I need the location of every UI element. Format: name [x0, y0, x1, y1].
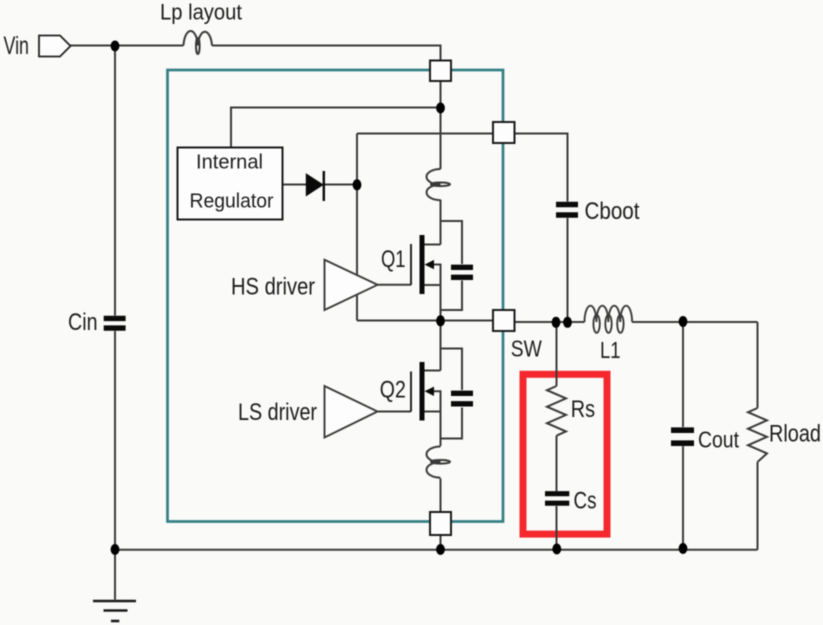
junction Cs bottom	[552, 544, 561, 555]
wire Q2 inductor to PGND pin	[440, 479, 442, 513]
wire VCC pin horizontal	[357, 133, 493, 135]
wire ground stem	[114, 550, 116, 600]
wire Q2 drain stub	[425, 370, 441, 372]
wire Q1 drain vertical	[440, 200, 442, 245]
wire Q2 body arrow stub	[433, 391, 441, 411]
wire node to Internal Regulator	[231, 108, 441, 148]
LS driver triangle	[325, 386, 378, 438]
wire out rail to Rload	[757, 322, 759, 408]
svg-text:Rload: Rload	[769, 421, 821, 448]
HS driver triangle	[325, 260, 378, 310]
capacitor Cs	[545, 494, 569, 504]
wire VCC rail down	[356, 134, 358, 321]
IC boundary box (teal)	[168, 70, 504, 522]
wire Q2 cap bottom tap	[441, 408, 463, 439]
svg-text:Rs: Rs	[571, 396, 595, 423]
wire regulator to diode	[283, 184, 306, 186]
wire Q1 cap top tap	[441, 221, 463, 264]
wire VCC pin to Cboot	[515, 134, 568, 202]
parasitic inductor above Q1	[426, 169, 450, 200]
junction ground left	[111, 544, 120, 555]
wire Cout to ground rail	[682, 446, 684, 550]
wire bottom ground rail	[115, 549, 758, 551]
wire LS driver to Q2 gate	[377, 411, 411, 413]
Internal Regulator block	[178, 148, 283, 220]
wire Q2 source stub	[425, 412, 441, 447]
wire L1 to output rail	[632, 321, 758, 323]
wire Q2 cap top tap	[441, 349, 463, 391]
transistor Q1	[411, 235, 434, 294]
wire Cin to ground rail	[114, 331, 116, 550]
wire HS driver to Q1 gate	[377, 284, 411, 286]
junction Cout bottom	[679, 543, 688, 554]
wire PGND pin to ground rail	[440, 535, 442, 550]
wire Q1 source stub	[425, 284, 441, 286]
wire Rs to Cs	[556, 436, 558, 491]
svg-text:Q1: Q1	[381, 246, 406, 273]
capacitor Q2 body	[451, 393, 473, 404]
junction PGND bottom	[436, 544, 445, 555]
svg-text:HS driver: HS driver	[231, 274, 315, 301]
svg-text:LS driver: LS driver	[238, 399, 317, 426]
svg-text:Vin: Vin	[4, 32, 30, 60]
svg-text:Internal: Internal	[196, 151, 263, 174]
svg-text:Cs: Cs	[574, 488, 597, 515]
svg-text:SW: SW	[511, 336, 543, 362]
junction diode to rail	[353, 179, 362, 190]
junction internal SW node	[436, 315, 445, 326]
diode	[306, 174, 323, 196]
svg-text:Cin: Cin	[68, 309, 98, 336]
transistor Q2	[411, 362, 434, 421]
svg-text:L1: L1	[600, 337, 621, 363]
svg-text:Q2: Q2	[380, 377, 406, 404]
wire SW to Rs	[556, 322, 558, 386]
capacitor Cboot	[556, 205, 578, 216]
pin pad PGND	[430, 512, 451, 535]
wire out node to Cout	[682, 322, 684, 427]
svg-text:Cboot: Cboot	[585, 198, 640, 225]
wire Vin node down to Cin	[114, 46, 116, 316]
wire Lp to VIN pin	[212, 46, 441, 61]
capacitor Cout	[671, 430, 694, 443]
inductor Lp layout	[184, 31, 213, 54]
wire internal SW rail	[357, 320, 493, 322]
red highlight box around Rs/Cs	[523, 374, 607, 534]
ground	[93, 601, 136, 621]
resistor Rload	[748, 408, 767, 462]
svg-text:Regulator: Regulator	[190, 190, 274, 213]
wire Q2 drain vertical	[440, 321, 442, 371]
inductor L1	[585, 306, 633, 333]
junction Vin node	[111, 41, 120, 52]
wire SW pin to L1	[515, 321, 585, 323]
capacitor Q1 body	[451, 267, 473, 277]
wire Rload to ground rail	[757, 462, 759, 550]
wire Q1 drain stub	[425, 244, 441, 246]
wire Vin to Lp	[71, 45, 184, 47]
junction below VIN pin	[436, 103, 445, 114]
capacitor Cin	[104, 318, 126, 328]
wire VIN pin to node below	[440, 81, 442, 169]
parasitic inductor below Q2	[426, 447, 450, 478]
resistor Rs	[547, 386, 566, 436]
svg-text:Lp layout: Lp layout	[160, 0, 242, 24]
wire diode to rail	[325, 184, 358, 186]
pin pad VCC	[493, 122, 515, 143]
pin pad VIN	[430, 61, 451, 82]
junction Rs tap	[552, 317, 561, 328]
wire Q1 body arrow stub	[433, 265, 441, 321]
svg-text:Cout: Cout	[698, 427, 739, 453]
wire Cboot to SW rail	[567, 218, 569, 322]
Vin port symbol	[39, 36, 71, 57]
wire Q1 cap bottom tap	[441, 281, 463, 311]
junction Cboot tap	[563, 317, 572, 328]
pin pad SW	[493, 310, 515, 331]
junction Cout top	[679, 316, 688, 327]
wire Cs to ground rail	[556, 506, 558, 550]
